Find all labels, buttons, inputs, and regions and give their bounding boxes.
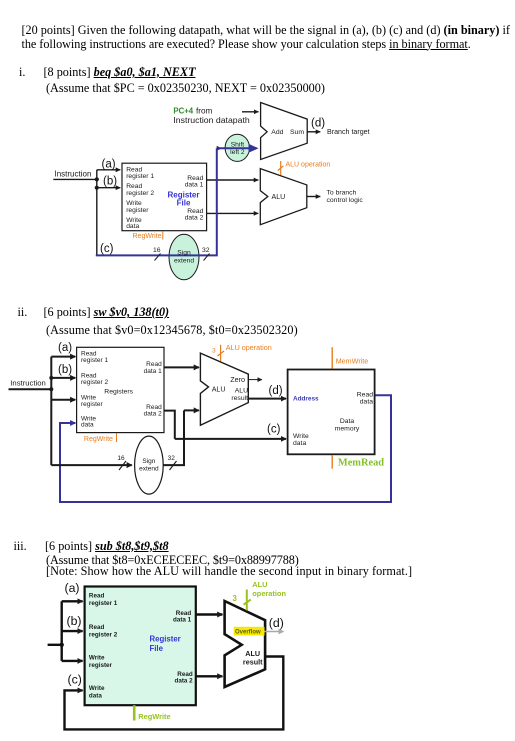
- svg-text:data 2: data 2: [185, 214, 204, 221]
- svg-text:register 2: register 2: [126, 190, 154, 197]
- svg-text:result: result: [231, 395, 248, 402]
- svg-text:Address: Address: [293, 395, 319, 402]
- svg-text:ALU operation: ALU operation: [286, 161, 331, 168]
- svg-text:data 2: data 2: [144, 411, 162, 418]
- svg-text:Register: Register: [150, 634, 181, 643]
- svg-text:Instruction: Instruction: [10, 379, 45, 388]
- svg-text:data: data: [89, 693, 102, 700]
- svg-text:Zero: Zero: [230, 375, 245, 384]
- svg-text:data: data: [360, 398, 373, 405]
- svg-text:Write: Write: [89, 655, 105, 662]
- svg-text:register 2: register 2: [81, 379, 108, 386]
- svg-text:(d): (d): [269, 385, 283, 397]
- svg-text:result: result: [243, 657, 263, 666]
- svg-text:data 1: data 1: [144, 368, 162, 375]
- svg-text:Shift: Shift: [231, 141, 245, 148]
- svg-text:data: data: [126, 223, 139, 230]
- svg-text:(c): (c): [267, 423, 281, 435]
- svg-text:register: register: [126, 207, 149, 214]
- svg-text:MemRead: MemRead: [338, 458, 384, 469]
- svg-text:16: 16: [153, 247, 161, 254]
- svg-text:Overflow: Overflow: [235, 630, 261, 636]
- svg-text:Branch target: Branch target: [327, 128, 370, 136]
- svg-text:MemWrite: MemWrite: [336, 357, 369, 366]
- svg-text:3: 3: [212, 347, 216, 354]
- svg-text:(b): (b): [58, 364, 72, 376]
- svg-text:Sum: Sum: [290, 129, 304, 136]
- svg-text:3: 3: [233, 594, 238, 603]
- svg-text:Read: Read: [89, 624, 105, 631]
- svg-text:Write: Write: [89, 685, 105, 692]
- svg-text:To branch: To branch: [327, 190, 357, 197]
- svg-text:(c): (c): [68, 673, 82, 687]
- svg-text:(b): (b): [103, 175, 117, 187]
- svg-text:(a): (a): [102, 158, 116, 170]
- svg-text:(a): (a): [65, 581, 80, 595]
- svg-text:extend: extend: [174, 257, 194, 264]
- svg-text:RegWrite: RegWrite: [133, 233, 162, 240]
- svg-text:(d): (d): [269, 616, 284, 630]
- svg-text:register: register: [81, 401, 104, 408]
- svg-text:register 1: register 1: [89, 600, 118, 607]
- svg-text:32: 32: [202, 247, 210, 254]
- svg-text:Registers: Registers: [104, 389, 133, 396]
- svg-text:Data: Data: [340, 418, 355, 425]
- svg-text:register 1: register 1: [126, 173, 154, 180]
- svg-text:data: data: [81, 422, 94, 429]
- svg-text:(b): (b): [67, 614, 82, 628]
- svg-text:(a): (a): [58, 342, 72, 354]
- svg-text:File: File: [177, 199, 191, 208]
- svg-text:(c): (c): [100, 243, 114, 255]
- svg-text:register 2: register 2: [89, 632, 118, 639]
- svg-text:left 2: left 2: [230, 149, 245, 156]
- svg-text:memory: memory: [335, 426, 360, 433]
- svg-text:RegWrite: RegWrite: [138, 712, 170, 721]
- svg-text:ALU: ALU: [252, 580, 267, 589]
- svg-text:32: 32: [168, 455, 176, 462]
- svg-text:Sign: Sign: [142, 458, 155, 465]
- svg-text:data 1: data 1: [185, 182, 204, 189]
- svg-text:register: register: [89, 662, 113, 669]
- svg-text:data 1: data 1: [173, 616, 192, 623]
- svg-text:Instruction: Instruction: [55, 170, 92, 179]
- svg-text:register 1: register 1: [81, 357, 108, 364]
- svg-text:(d): (d): [311, 118, 325, 130]
- svg-text:ALU: ALU: [235, 387, 248, 394]
- svg-text:ALU: ALU: [272, 193, 286, 201]
- svg-text:16: 16: [117, 455, 125, 462]
- svg-text:data: data: [293, 440, 306, 447]
- svg-text:Read: Read: [357, 391, 373, 398]
- svg-text:Instruction datapath: Instruction datapath: [173, 115, 249, 125]
- svg-text:Write: Write: [293, 433, 309, 440]
- svg-text:Sign: Sign: [177, 250, 191, 257]
- svg-text:data 2: data 2: [174, 678, 193, 685]
- svg-text:control logic: control logic: [327, 197, 364, 204]
- svg-text:Add: Add: [271, 129, 283, 136]
- svg-text:ALU operation: ALU operation: [226, 343, 272, 352]
- svg-text:ALU: ALU: [212, 386, 226, 394]
- svg-text:File: File: [150, 644, 164, 653]
- svg-text:RegWrite: RegWrite: [84, 436, 113, 443]
- svg-text:extend: extend: [139, 466, 159, 473]
- svg-text:operation: operation: [252, 589, 286, 598]
- svg-text:Read: Read: [89, 593, 105, 600]
